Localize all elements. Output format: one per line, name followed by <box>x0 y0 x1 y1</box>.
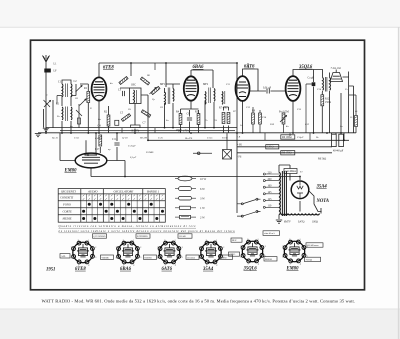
svg-text:FONO: FONO <box>62 203 72 207</box>
svg-text:BLU: BLU <box>232 240 237 242</box>
svg-text:EM80: EM80 <box>64 169 78 174</box>
svg-text:7: 7 <box>199 247 200 249</box>
svg-text:35A4: 35A4 <box>316 185 328 190</box>
svg-text:4: 4 <box>300 263 301 265</box>
svg-text:8: 8 <box>247 239 248 241</box>
svg-text:T1: T1 <box>300 171 303 174</box>
svg-text:1: 1 <box>258 239 259 241</box>
svg-text:Ca µF: Ca µF <box>308 77 315 80</box>
svg-text:10 W: 10 W <box>200 177 207 181</box>
svg-text:MF: MF <box>184 78 189 81</box>
svg-text:R10: R10 <box>269 123 275 126</box>
svg-text:2 W: 2 W <box>200 216 205 220</box>
svg-text:5: 5 <box>123 265 124 267</box>
svg-text:8: 8 <box>78 240 79 242</box>
svg-text:1: 1 <box>88 240 89 242</box>
svg-text:7: 7 <box>240 246 241 248</box>
svg-text:1: 1 <box>133 240 134 242</box>
svg-text:35A4: 35A4 <box>202 267 214 272</box>
svg-text:R17: R17 <box>95 148 100 151</box>
svg-text:6TE8: 6TE8 <box>75 267 86 272</box>
svg-text:MEDIE: MEDIE <box>62 217 72 221</box>
svg-text:8: 8 <box>206 240 207 242</box>
svg-text:R6 150Ω: R6 150Ω <box>282 152 292 155</box>
svg-text:AUDIO: AUDIO <box>87 190 98 194</box>
svg-text:2: 2 <box>307 246 308 248</box>
svg-text:100 kΩ mass: 100 kΩ mass <box>307 245 319 247</box>
svg-text:120 Ω: 120 Ω <box>267 146 274 149</box>
svg-text:R6 100Ω: R6 100Ω <box>282 136 292 139</box>
svg-text:Quadro ricevuto con voltmetro: Quadro ricevuto con voltmetro a massa, l… <box>59 225 197 228</box>
svg-text:0,1µF: 0,1µF <box>130 156 137 159</box>
svg-text:0,01 µF: 0,01 µF <box>263 87 272 90</box>
svg-text:3 W: 3 W <box>200 197 205 201</box>
svg-text:C 25: C 25 <box>158 137 164 140</box>
svg-text:8: 8 <box>289 239 290 241</box>
svg-text:5: 5 <box>290 264 291 266</box>
svg-text:OSC: OSC <box>131 84 136 87</box>
svg-text:Rb 470: Rb 470 <box>184 137 193 140</box>
svg-text:C 0,1: C 0,1 <box>74 137 79 140</box>
svg-text:6: 6 <box>199 257 200 259</box>
svg-text:7: 7 <box>116 247 117 249</box>
svg-text:R 2MΩ: R 2MΩ <box>145 151 153 154</box>
svg-text:3: 3 <box>265 256 266 258</box>
svg-text:Ra 1k: Ra 1k <box>51 137 59 140</box>
svg-text:1951: 1951 <box>46 268 55 273</box>
svg-text:2: 2 <box>223 247 224 249</box>
svg-text:6: 6 <box>282 256 283 258</box>
svg-text:4: 4 <box>216 264 217 266</box>
svg-text:vista 40 mA: vista 40 mA <box>264 232 275 235</box>
svg-text:R13: R13 <box>304 123 310 126</box>
svg-text:7 km elet: 7 km elet <box>331 66 342 70</box>
svg-text:3: 3 <box>307 256 308 258</box>
svg-text:2: 2 <box>265 246 266 248</box>
svg-text:4: 4 <box>88 264 89 266</box>
svg-text:5: 5 <box>206 265 207 267</box>
svg-text:Cs: Cs <box>345 88 348 91</box>
svg-text:C11: C11 <box>226 83 230 86</box>
svg-text:100Ω: 100Ω <box>312 221 318 224</box>
svg-text:SEGUENTI: SEGUENTI <box>61 190 77 194</box>
svg-text:6: 6 <box>157 257 158 259</box>
svg-text:NOTA: NOTA <box>316 199 330 204</box>
svg-text:Ct: Ct <box>350 116 353 119</box>
svg-text:35QL6: 35QL6 <box>243 266 258 271</box>
svg-text:ROSSO: ROSSO <box>145 257 152 259</box>
svg-text:EM80: EM80 <box>286 266 300 271</box>
svg-text:Pot 0,5M: Pot 0,5M <box>279 111 289 114</box>
svg-text:Le tensioni sotto indicate e n: Le tensioni sotto indicate e nelle tabel… <box>58 230 236 233</box>
svg-text:OSCILLATORE: OSCILLATORE <box>114 190 134 194</box>
svg-text:6: 6 <box>116 257 117 259</box>
svg-text:6M7V: 6M7V <box>284 221 291 224</box>
svg-text:MF1: MF1 <box>160 83 166 86</box>
svg-text:3: 3 <box>182 257 183 259</box>
svg-text:4: 4 <box>175 264 176 266</box>
svg-text:R9 2M: R9 2M <box>139 137 148 140</box>
svg-text:5: 5 <box>78 265 79 267</box>
svg-text:VERDE: VERDE <box>102 257 110 259</box>
svg-text:R6 5kΩ: R6 5kΩ <box>318 158 326 161</box>
svg-text:CONTATTI: CONTATTI <box>60 195 74 199</box>
svg-text:150Ω: 150Ω <box>325 101 331 104</box>
svg-text:6AT6: 6AT6 <box>162 267 173 272</box>
svg-text:+ Fil: + Fil <box>237 144 242 147</box>
svg-text:R3 47k: R3 47k <box>132 130 140 133</box>
svg-text:2: 2 <box>182 247 183 249</box>
svg-text:R 4M: R 4M <box>94 137 101 140</box>
svg-text:C 0,5: C 0,5 <box>207 137 213 140</box>
svg-text:1: 1 <box>175 240 176 242</box>
svg-text:1 W: 1 W <box>200 206 205 210</box>
svg-text:6 W: 6 W <box>200 187 205 191</box>
svg-text:40+40 µF: 40+40 µF <box>333 150 344 153</box>
svg-text:3: 3 <box>223 257 224 259</box>
svg-text:AZZ.: AZZ. <box>61 255 66 258</box>
svg-text:2: 2 <box>95 247 96 249</box>
svg-text:5: 5 <box>248 264 249 266</box>
svg-text:SCHERMO: SCHERMO <box>137 236 148 238</box>
svg-text:7: 7 <box>71 247 72 249</box>
svg-text:C 25µF: C 25µF <box>128 145 136 148</box>
svg-text:4: 4 <box>258 263 259 265</box>
svg-text:R7 47k: R7 47k <box>219 107 227 110</box>
svg-text:7: 7 <box>157 247 158 249</box>
svg-text:CORTE: CORTE <box>63 210 72 214</box>
svg-text:3: 3 <box>95 257 96 259</box>
svg-text:5: 5 <box>165 265 166 267</box>
svg-text:1: 1 <box>216 240 217 242</box>
svg-text:BANDE 1: BANDE 1 <box>147 190 160 194</box>
svg-text:6BA6: 6BA6 <box>120 267 132 272</box>
svg-text:Cf 50: Cf 50 <box>122 137 128 140</box>
svg-text:- Fil: - Fil <box>237 156 242 159</box>
svg-text:35QL6: 35QL6 <box>298 65 313 70</box>
svg-text:0,47Ω: 0,47Ω <box>298 221 305 224</box>
svg-text:GRIG.: GRIG. <box>230 254 236 256</box>
svg-text:750 kΩ: 750 kΩ <box>306 260 313 262</box>
svg-text:7: 7 <box>282 246 283 248</box>
svg-text:100 kΩ: 100 kΩ <box>179 236 186 238</box>
svg-text:C 0,1: C 0,1 <box>112 138 118 141</box>
svg-text:con 40mA: con 40mA <box>285 170 296 173</box>
svg-text:8: 8 <box>123 240 124 242</box>
svg-text:6: 6 <box>240 256 241 258</box>
svg-text:8: 8 <box>164 240 165 242</box>
svg-text:+B: +B <box>237 136 241 139</box>
svg-text:2: 2 <box>140 247 141 249</box>
svg-text:ROSSO: ROSSO <box>265 259 272 261</box>
svg-text:6AT6: 6AT6 <box>244 65 255 70</box>
svg-text:6,3V ROSSO: 6,3V ROSSO <box>94 236 106 238</box>
svg-text:4: 4 <box>133 264 134 266</box>
svg-text:MF2: MF2 <box>203 83 209 86</box>
svg-text:3: 3 <box>140 257 141 259</box>
svg-text:6: 6 <box>71 257 72 259</box>
svg-text:GIALLO: GIALLO <box>187 256 196 259</box>
svg-text:C 8µF: C 8µF <box>297 136 304 139</box>
svg-text:1: 1 <box>300 239 301 241</box>
svg-text:6TE8: 6TE8 <box>103 66 114 71</box>
svg-text:6BA6: 6BA6 <box>193 65 205 70</box>
